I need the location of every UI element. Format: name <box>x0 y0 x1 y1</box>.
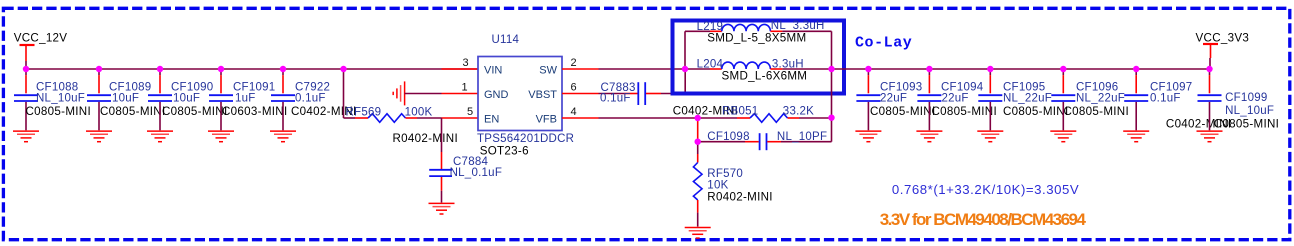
svg-text:L204: L204 <box>697 58 724 70</box>
wire: GND symbol to pin 1 <box>405 93 442 95</box>
svg-text:1: 1 <box>462 82 468 94</box>
inductor L219 NL_3.3uH <box>697 20 825 44</box>
svg-text:CF1098: CF1098 <box>707 131 749 143</box>
capacitor CF1094 <box>916 70 997 142</box>
junction CF1093 <box>865 66 871 72</box>
svg-text:VCC_12V: VCC_12V <box>14 31 68 44</box>
svg-text:TPS564201DDCR: TPS564201DDCR <box>477 133 574 145</box>
wire: pin 4 VFB stub and net <box>562 117 698 119</box>
wire: VCC_12V input rail <box>26 68 478 70</box>
capacitor CF1093 <box>855 70 935 142</box>
svg-text:C0805-MINI: C0805-MINI <box>26 105 92 118</box>
capacitor CF1089 <box>86 70 166 142</box>
svg-text:R0402-MINI: R0402-MINI <box>707 191 773 204</box>
svg-text:NL_22uF: NL_22uF <box>1076 92 1125 104</box>
power symbol VCC_3V3 <box>1196 31 1250 69</box>
svg-text:4: 4 <box>571 106 577 118</box>
junction CF1094 <box>926 66 932 72</box>
wire: branch up to L219 <box>685 31 710 69</box>
capacitor CF1098 NL_10PF <box>698 118 832 150</box>
wire: pin 5 red stub <box>442 117 479 119</box>
svg-text:0.1uF: 0.1uF <box>1150 92 1181 104</box>
svg-text:C0603-MINI: C0603-MINI <box>222 105 288 118</box>
power symbol VCC_12V <box>14 31 68 69</box>
ground symbol at GND pin (sideways) <box>393 81 404 105</box>
junction input rail / CF1088 <box>23 66 29 72</box>
svg-text:22uF: 22uF <box>880 92 907 104</box>
junction CF1095 <box>987 66 993 72</box>
junction CF1091 <box>218 66 224 72</box>
resistor RB051 33.2K <box>673 105 832 123</box>
svg-text:10uF: 10uF <box>173 92 200 104</box>
svg-text:R0402-MINI: R0402-MINI <box>393 132 459 145</box>
resistor RF570 10K <box>685 142 773 238</box>
svg-text:VIN: VIN <box>484 64 502 76</box>
junction VCC_3V3 / CF1099 <box>1206 66 1212 72</box>
svg-text:VFB: VFB <box>536 113 557 125</box>
svg-text:6: 6 <box>571 82 577 94</box>
svg-text:NL_10uF: NL_10uF <box>36 92 85 104</box>
junction CF1096 <box>1060 66 1066 72</box>
ground <box>855 131 881 142</box>
svg-text:C0805-MINI: C0805-MINI <box>870 105 936 118</box>
svg-text:SMD_L-5_8X5MM: SMD_L-5_8X5MM <box>707 31 806 44</box>
junction inductor output <box>828 66 834 72</box>
svg-text:GND: GND <box>484 89 509 101</box>
ground <box>13 131 39 142</box>
wire: L219 to right junction <box>782 31 831 69</box>
capacitor C7884 <box>429 118 503 214</box>
wire: feedback top to output rail <box>831 69 833 142</box>
svg-text:3: 3 <box>463 57 469 69</box>
svg-text:C0805-MINI: C0805-MINI <box>1064 105 1130 118</box>
svg-text:10K: 10K <box>707 179 728 191</box>
svg-text:C0805-MINI: C0805-MINI <box>1214 118 1280 131</box>
svg-text:NL_0.1uF: NL_0.1uF <box>450 167 503 179</box>
svg-text:NL_10uF: NL_10uF <box>1225 105 1274 117</box>
capacitor CF1088 <box>13 70 91 142</box>
co-lay highlight box around inductors <box>673 21 845 94</box>
svg-text:VBST: VBST <box>528 89 557 101</box>
ground <box>86 131 112 142</box>
svg-text:10uF: 10uF <box>112 92 139 104</box>
ground <box>1123 131 1149 142</box>
ground <box>977 131 1003 142</box>
ground <box>685 228 711 239</box>
junction feedback top <box>828 115 834 121</box>
capacitor CF1091 <box>208 70 288 142</box>
resistor RF569 100K <box>344 107 459 146</box>
wire: pin 3 red stub <box>442 68 479 70</box>
capacitor CF1099 <box>1197 70 1280 142</box>
svg-text:SMD_L-6X6MM: SMD_L-6X6MM <box>722 69 808 82</box>
svg-text:2: 2 <box>571 57 577 69</box>
svg-text:C0805-MINI: C0805-MINI <box>1003 105 1069 118</box>
junction EN branch <box>340 66 346 72</box>
svg-text:C0805-MINI: C0805-MINI <box>932 105 998 118</box>
svg-text:33.2K: 33.2K <box>783 106 814 118</box>
svg-text:NL_22uF: NL_22uF <box>1003 92 1052 104</box>
svg-text:22uF: 22uF <box>942 92 969 104</box>
svg-text:RF570: RF570 <box>707 168 743 180</box>
svg-text:C0805-MINI: C0805-MINI <box>100 105 166 118</box>
wire: VCC_3V3 output rail <box>832 68 1210 70</box>
svg-text:RB051: RB051 <box>722 106 758 118</box>
svg-text:5: 5 <box>467 106 473 118</box>
capacitor CF1097 <box>1123 70 1231 142</box>
junction CF1098 branch <box>695 139 701 145</box>
capacitor C7922 <box>270 70 357 142</box>
junction VFB node <box>695 115 701 121</box>
svg-text:VCC_3V3: VCC_3V3 <box>1196 31 1250 44</box>
ground <box>208 131 234 142</box>
capacitor C7883 bootstrap <box>599 69 686 105</box>
capacitor CF1096 <box>1050 70 1129 142</box>
capacitor CF1090 <box>147 70 228 142</box>
svg-text:NL_10PF: NL_10PF <box>777 131 827 143</box>
svg-text:1uF: 1uF <box>235 92 256 104</box>
svg-text:3.3V for BCM49408/BCM43694: 3.3V for BCM49408/BCM43694 <box>880 210 1087 229</box>
svg-text:SW: SW <box>539 64 557 76</box>
ground <box>1050 131 1076 142</box>
svg-text:100K: 100K <box>405 107 433 119</box>
op-amp/regulator U114 TPS564201DDCR <box>462 34 577 157</box>
wire: pin 6 VBST stub <box>562 93 599 95</box>
junction CF1097 <box>1133 66 1139 72</box>
junction CF1089 <box>96 66 102 72</box>
capacitor CF1095 <box>977 70 1068 142</box>
ground <box>270 131 296 142</box>
ground <box>916 131 942 142</box>
junction CF1090 <box>157 66 163 72</box>
junction SW node <box>682 66 688 72</box>
svg-text:CF1099: CF1099 <box>1225 92 1267 104</box>
svg-text:0.1uF: 0.1uF <box>295 92 326 104</box>
svg-text:0.768*(1+33.2K/10K)=3.305V: 0.768*(1+33.2K/10K)=3.305V <box>892 182 1079 197</box>
ground <box>1197 131 1223 142</box>
svg-text:RF569: RF569 <box>346 107 382 119</box>
inductor L204 3.3uH <box>685 58 832 82</box>
svg-text:0.1uF: 0.1uF <box>600 93 631 105</box>
wire: pin 1 red stub <box>442 93 479 95</box>
svg-text:U114: U114 <box>492 34 520 46</box>
ground <box>147 131 173 142</box>
wire: pin 2 SW stub and net to inductors <box>562 68 599 70</box>
ground <box>429 203 455 214</box>
junction C7922 <box>280 66 286 72</box>
svg-text:EN: EN <box>484 113 499 125</box>
svg-text:SOT23-6: SOT23-6 <box>480 144 529 157</box>
svg-text:C0805-MINI: C0805-MINI <box>162 105 228 118</box>
svg-text:Co-Lay: Co-Lay <box>855 34 912 51</box>
wire: EN branch vertical <box>343 69 345 118</box>
